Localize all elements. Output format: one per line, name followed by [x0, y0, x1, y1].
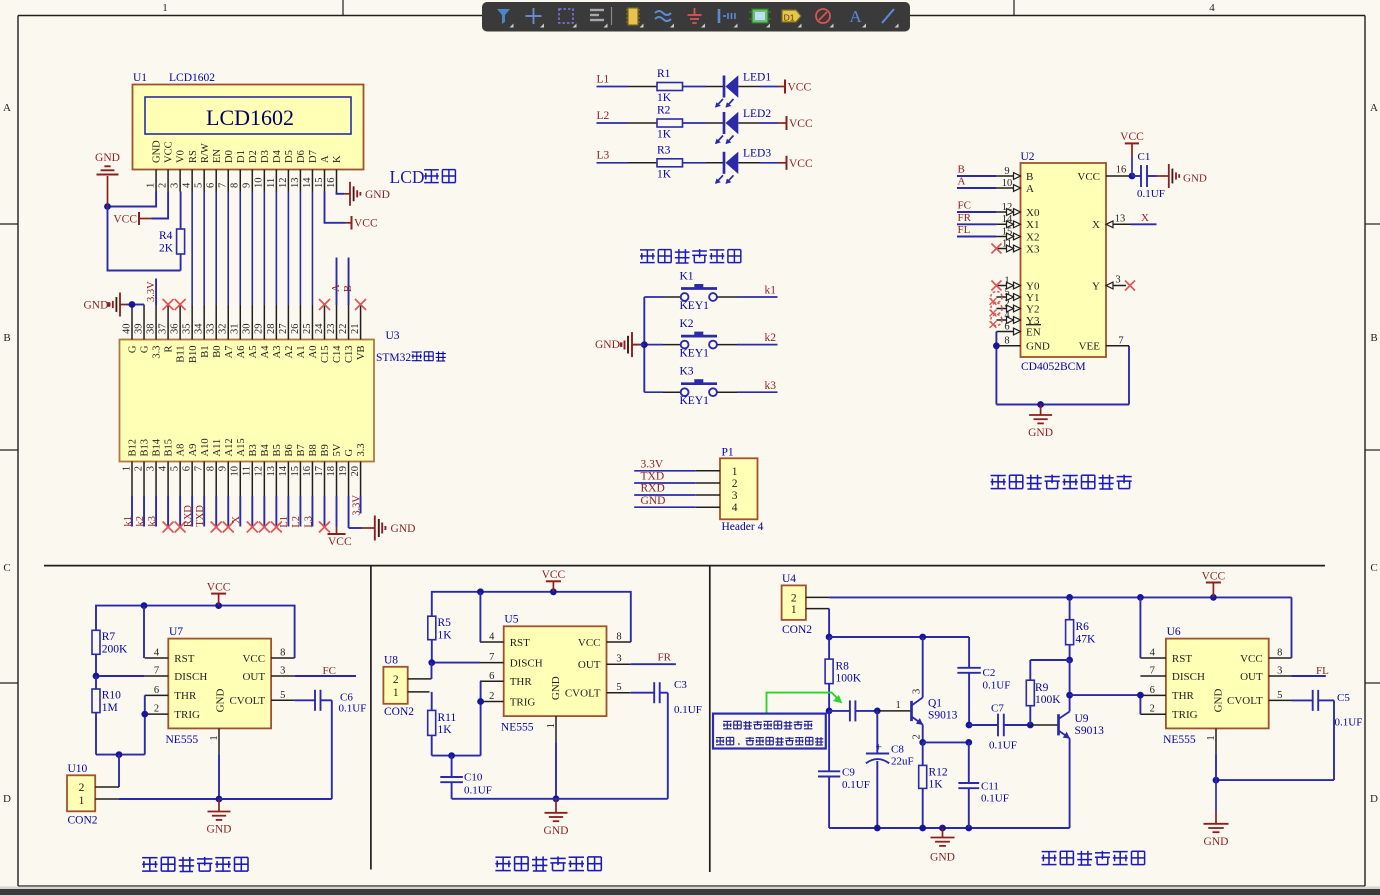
svg-text:TXD: TXD	[641, 471, 665, 483]
resistor R2 1K	[657, 105, 683, 141]
wire R7 top stub	[95, 676, 97, 689]
capacitor C8 22uF polarized	[866, 711, 914, 828]
U2 pin 1 Y0	[996, 275, 1040, 292]
svg-text:R4: R4	[159, 230, 173, 242]
svg-text:LCD1602: LCD1602	[206, 105, 294, 130]
wire RST riser U7	[143, 606, 145, 658]
component P1 Header4 body	[720, 458, 758, 519]
toolbar icon align	[590, 7, 612, 28]
junction	[919, 634, 926, 641]
component U2 CD4052BCM body	[1021, 163, 1107, 357]
svg-text:C: C	[3, 562, 10, 574]
label LCD module title	[390, 167, 456, 187]
svg-text:200K: 200K	[102, 643, 128, 655]
svg-text:STM32: STM32	[376, 352, 411, 364]
wire U3 pin23 net A	[336, 258, 338, 306]
toolbar icon wires	[655, 11, 674, 28]
label key circuit title	[640, 249, 655, 251]
svg-text:RS: RS	[188, 150, 199, 163]
svg-text:13: 13	[290, 178, 301, 189]
wire U7 GND pin riser	[218, 754, 220, 799]
U2 pin 5 Y1	[996, 287, 1039, 304]
svg-text:C: C	[1370, 562, 1377, 574]
svg-text:C13: C13	[344, 346, 355, 364]
svg-text:3: 3	[1115, 275, 1120, 286]
svg-text:Q1: Q1	[928, 698, 942, 710]
svg-text:1: 1	[162, 2, 168, 14]
power port VCC right of U1	[346, 216, 378, 230]
U6 pin 7 DISCH	[1140, 666, 1205, 683]
svg-text:11: 11	[266, 178, 277, 188]
U2 pin 3 Y	[1092, 275, 1126, 293]
transistor Q1 S9013	[896, 689, 958, 740]
capacitor C7 0.1UF	[969, 703, 1030, 752]
wire net FR to U2	[957, 223, 996, 225]
svg-text:2: 2	[393, 674, 399, 686]
svg-text:35: 35	[182, 324, 193, 335]
section divider horizontal	[44, 565, 1325, 567]
U6 pin 1 GND	[1206, 689, 1224, 755]
power port GND below U6	[1204, 780, 1229, 848]
junction	[216, 796, 223, 803]
svg-text:B9: B9	[320, 444, 331, 456]
wire U8 pin2 up to DISCH	[431, 663, 433, 679]
svg-text:VCC: VCC	[789, 118, 813, 130]
svg-text:0.1UF: 0.1UF	[983, 680, 1011, 692]
svg-text:5V: 5V	[332, 443, 343, 456]
bus wires U1 to U3 pins 35-25	[192, 192, 312, 306]
junction	[1066, 657, 1073, 664]
svg-text:U1: U1	[133, 72, 147, 84]
U7 pin 4 RST	[145, 648, 195, 665]
svg-text:C14: C14	[332, 345, 343, 363]
U2 pin 7 VEE	[1079, 335, 1129, 352]
svg-text:B7: B7	[296, 444, 307, 456]
resistor R3 1K	[657, 144, 683, 180]
wire U3 pin22 net B	[348, 258, 350, 306]
U6 pin 8 VCC	[1240, 648, 1291, 665]
wire emitter node row	[923, 741, 969, 743]
status strip bottom	[0, 887, 1380, 895]
svg-text:VCC: VCC	[542, 569, 566, 581]
power port GND below U5	[555, 799, 557, 813]
label resistance title	[495, 856, 510, 858]
wire GND trunk down to R4 bottom	[108, 207, 181, 271]
U8 pin 2	[393, 674, 432, 686]
svg-text:X0: X0	[1026, 207, 1040, 219]
svg-text:A4: A4	[260, 345, 271, 359]
svg-text:1: 1	[1004, 275, 1009, 286]
svg-text:3: 3	[145, 466, 156, 471]
svg-text:3: 3	[280, 666, 285, 677]
U2 pin 4 Y3	[996, 310, 1040, 327]
svg-text:R9: R9	[1035, 682, 1049, 694]
wire net 3.3V	[634, 470, 696, 472]
svg-text:4: 4	[157, 465, 168, 471]
wire THR TRIG riser U5	[479, 681, 482, 755]
junction	[1066, 594, 1073, 601]
svg-text:D7: D7	[308, 150, 319, 163]
wire OUT to FC	[295, 675, 356, 677]
junction	[966, 722, 973, 729]
svg-text:R3: R3	[657, 144, 671, 156]
svg-text:14: 14	[278, 465, 289, 476]
svg-text:A: A	[320, 155, 331, 163]
svg-text:1K: 1K	[657, 92, 672, 104]
wire U1 pin15 to VCC	[325, 192, 346, 223]
svg-text:38: 38	[145, 324, 156, 335]
U2 pin 6 EN	[996, 321, 1041, 338]
wire U3 pin12 stub	[263, 496, 265, 527]
svg-text:20: 20	[350, 466, 361, 477]
svg-text:15: 15	[314, 178, 325, 189]
toolbar icon text	[849, 7, 866, 28]
wire U3 pin13 stub	[275, 496, 277, 527]
svg-text:U9: U9	[1075, 713, 1089, 725]
svg-text:4: 4	[1209, 2, 1215, 14]
svg-text:U5: U5	[504, 614, 518, 626]
svg-text:G: G	[140, 345, 151, 353]
svg-text:CON2: CON2	[384, 706, 414, 718]
svg-text:3.3: 3.3	[152, 346, 163, 359]
U5 pin 8 VCC	[578, 632, 631, 649]
junction	[1210, 594, 1217, 601]
svg-text:D0: D0	[224, 150, 235, 163]
U6 pin 4 RST	[1140, 648, 1192, 665]
junction	[965, 825, 972, 832]
U3 comment STM32 core board	[376, 351, 446, 364]
capacitor C3 0.1UF	[654, 679, 702, 716]
U1 pins 1-16	[156, 170, 336, 192]
svg-text:D5: D5	[284, 150, 295, 163]
svg-text:VCC: VCC	[1120, 131, 1144, 143]
wire U5 GND pin riser	[555, 742, 557, 799]
svg-text:1: 1	[79, 795, 85, 807]
svg-text:2: 2	[79, 782, 85, 794]
svg-text:6: 6	[154, 685, 159, 696]
svg-text:k2: k2	[765, 332, 777, 344]
svg-text:B6: B6	[284, 444, 295, 456]
svg-text:FL: FL	[958, 224, 971, 236]
wire U3 pins 40,39 to GND	[127, 304, 145, 307]
svg-text:17: 17	[314, 466, 325, 477]
svg-text:L3: L3	[597, 150, 610, 162]
svg-text:6: 6	[489, 671, 494, 682]
svg-text:2: 2	[133, 466, 144, 471]
svg-text:A8: A8	[176, 444, 187, 457]
svg-text:2: 2	[1004, 298, 1009, 309]
junction	[477, 588, 484, 595]
svg-text:12: 12	[1002, 202, 1013, 213]
no-ERC marker U2 Y1	[990, 291, 1002, 305]
svg-text:K2: K2	[680, 318, 694, 330]
svg-text:3: 3	[732, 490, 738, 502]
svg-text:1: 1	[896, 700, 901, 711]
junction	[550, 588, 557, 595]
wire GND rail to C6 riser	[219, 700, 332, 799]
svg-text:100K: 100K	[1035, 694, 1061, 706]
svg-text:B: B	[343, 285, 354, 292]
U2 pin 15 X2	[996, 226, 1039, 243]
svg-text:8: 8	[206, 466, 217, 471]
svg-text:5: 5	[616, 682, 621, 693]
svg-text:GND: GND	[930, 852, 955, 864]
svg-text:KEY1: KEY1	[680, 347, 710, 359]
svg-text:Y: Y	[1092, 280, 1100, 292]
svg-text:VCC: VCC	[1077, 171, 1100, 183]
junction	[141, 711, 148, 718]
svg-text:U7: U7	[169, 626, 183, 638]
svg-text:OUT: OUT	[578, 659, 601, 671]
svg-text:5: 5	[170, 466, 181, 471]
svg-text:FC: FC	[323, 665, 336, 677]
svg-text:0.1UF: 0.1UF	[464, 785, 492, 797]
wire bottom rail block3	[829, 827, 1070, 829]
svg-text:GND: GND	[152, 140, 163, 163]
junction	[965, 739, 972, 746]
wire LED2 to VCC	[738, 122, 786, 124]
wire U8 pin1 to R11	[431, 692, 433, 711]
junction	[215, 602, 222, 609]
component U1 LCD1602 body	[133, 85, 364, 170]
U7 pin 5 CVOLT	[229, 690, 294, 707]
svg-text:X: X	[231, 516, 242, 524]
svg-text:LCD: LCD	[390, 167, 425, 187]
svg-text:k3: k3	[147, 516, 158, 527]
capacitor C1	[1132, 151, 1165, 200]
U2 pin 2 Y2	[996, 298, 1039, 315]
svg-text:B5: B5	[272, 444, 283, 456]
U2 pin 16 VCC	[1077, 164, 1132, 182]
svg-text:8: 8	[1004, 336, 1009, 347]
svg-text:7: 7	[1118, 335, 1123, 346]
wire THR TRIG riser U6	[1139, 695, 1141, 714]
svg-text:0.1UF: 0.1UF	[981, 793, 1009, 805]
wire U1 pin2 to VCC	[152, 192, 169, 219]
power port GND right of U1	[344, 182, 390, 206]
svg-text:6: 6	[182, 466, 193, 471]
svg-text:NE555: NE555	[501, 722, 534, 734]
svg-text:7: 7	[218, 183, 229, 188]
wire trunk to K1	[644, 296, 680, 298]
svg-text:G: G	[128, 345, 139, 353]
wires U3 pins 1-3 nets k1 k2 k3	[132, 496, 156, 527]
wire CVOLT to C5	[1292, 699, 1313, 701]
no-ERC marker pin36	[175, 299, 186, 310]
svg-text:2: 2	[154, 704, 159, 715]
capacitor C5 0.1UF	[1313, 690, 1363, 729]
wire U9 emitter riser to bottom rail	[1069, 738, 1071, 828]
svg-text:1: 1	[209, 735, 220, 740]
svg-text:FL: FL	[1316, 665, 1329, 677]
svg-text:22: 22	[338, 324, 349, 335]
wire net FL to U2	[957, 236, 996, 238]
svg-text:GND: GND	[207, 824, 232, 836]
junction	[874, 825, 881, 832]
U7 pin 8 VCC	[242, 648, 294, 665]
junction	[141, 602, 148, 609]
U1 pin names	[152, 140, 343, 163]
svg-text:A3: A3	[272, 346, 283, 359]
toolbar icon filter	[497, 9, 514, 28]
annotation text frame	[713, 714, 826, 749]
svg-text:GND: GND	[84, 300, 109, 312]
P1 pin 1	[696, 466, 738, 478]
svg-text:1K: 1K	[438, 629, 453, 641]
svg-text:VCC: VCC	[113, 214, 137, 226]
toolbar icon power port	[688, 8, 706, 28]
wire L3 to R3	[597, 162, 658, 164]
svg-text:OUT: OUT	[1240, 671, 1263, 683]
power port VCC LED1	[785, 80, 811, 94]
svg-text:k3: k3	[765, 380, 777, 392]
junction	[1066, 692, 1073, 699]
svg-text:7: 7	[154, 666, 159, 677]
toolbar icon probe	[719, 9, 738, 28]
svg-text:TXD: TXD	[195, 505, 206, 527]
svg-text:11: 11	[242, 466, 253, 476]
svg-text:A10: A10	[200, 438, 211, 456]
svg-text:RST: RST	[1172, 653, 1192, 665]
wire RST riser U6	[1139, 597, 1141, 658]
svg-text:THR: THR	[510, 676, 533, 688]
power port GND right of U3 pin19	[362, 516, 415, 541]
svg-text:GND: GND	[1028, 427, 1053, 439]
svg-text:GND: GND	[391, 523, 416, 535]
svg-text:U10: U10	[68, 763, 88, 775]
svg-text:CVOLT: CVOLT	[229, 695, 265, 707]
U7 pin 3 OUT	[242, 666, 294, 683]
svg-text:RXD: RXD	[641, 483, 665, 495]
power port GND below U2	[1040, 405, 1042, 416]
wire node to U6 THR	[1070, 694, 1141, 696]
wire U3 pin4 stub	[167, 496, 169, 527]
svg-text:39: 39	[133, 324, 144, 335]
no-ERC marker pin17	[319, 522, 330, 533]
wire OUT to FR	[631, 663, 676, 665]
svg-text:THR: THR	[174, 690, 197, 702]
wire U1 pin3 to R4	[180, 192, 182, 230]
svg-text:B: B	[1026, 171, 1033, 183]
svg-text:K: K	[332, 155, 343, 163]
svg-text:1: 1	[732, 466, 738, 478]
P1 pin 4	[696, 502, 738, 514]
svg-text:X3: X3	[1026, 243, 1040, 255]
junction	[477, 698, 484, 705]
capacitor C6 0.1UF	[315, 690, 366, 715]
junction	[939, 825, 946, 832]
resistor R1 1K	[657, 68, 683, 104]
resistor R9 100K	[1026, 660, 1061, 725]
svg-text:2: 2	[157, 183, 168, 188]
svg-text:GND: GND	[95, 152, 120, 164]
svg-text:34: 34	[194, 323, 205, 334]
svg-text:0.1UF: 0.1UF	[989, 740, 1017, 752]
svg-text:X: X	[1141, 212, 1149, 224]
svg-text:A7: A7	[224, 346, 235, 359]
no-ERC marker pin5	[175, 522, 186, 533]
wire net GND	[634, 506, 696, 508]
svg-text:2: 2	[1150, 704, 1155, 715]
resistor R11 1K	[428, 710, 457, 736]
svg-text:7: 7	[1150, 666, 1155, 677]
U5 pin 7 DISCH	[480, 652, 543, 669]
svg-text:D: D	[1370, 793, 1378, 805]
svg-text:R: R	[164, 346, 175, 353]
svg-text:3.3V: 3.3V	[146, 281, 157, 302]
wire U3 pin9 stub	[227, 496, 229, 527]
component U4 CON2 body	[782, 585, 806, 620]
svg-text:k2: k2	[135, 516, 146, 527]
wire U4 pin1 down	[828, 609, 830, 637]
svg-text:A: A	[3, 102, 11, 114]
svg-text:GND: GND	[365, 189, 390, 201]
power port VCC LED2	[787, 116, 813, 130]
component U6 NE555 body	[1166, 639, 1269, 729]
wire K1 to net k1	[717, 296, 777, 298]
svg-text:32: 32	[218, 324, 229, 335]
toolbar icon line	[882, 9, 899, 28]
wire VCC rail block3	[829, 596, 1291, 598]
svg-text:33: 33	[206, 324, 217, 335]
svg-text:2: 2	[791, 593, 797, 605]
label multiplexer title	[991, 475, 1006, 477]
junction	[553, 795, 560, 802]
svg-text:A5: A5	[248, 346, 259, 359]
svg-text:5: 5	[194, 183, 205, 188]
svg-text:DISCH: DISCH	[174, 671, 207, 683]
wire R5 to DISCH	[432, 640, 480, 663]
svg-text:6: 6	[1150, 685, 1155, 696]
wire U3 pin8 stub	[215, 496, 217, 527]
svg-text:100K: 100K	[836, 673, 862, 685]
svg-text:VCC: VCC	[207, 581, 231, 593]
component U10 CON2 body	[67, 775, 95, 811]
svg-text:37: 37	[157, 324, 168, 335]
svg-text:K1: K1	[680, 270, 694, 282]
U5 pin 5 CVOLT	[565, 682, 631, 699]
no-ERC marker pin4	[163, 522, 174, 533]
wire U2 X net	[1131, 223, 1157, 225]
svg-text:7: 7	[489, 652, 494, 663]
wire U3 pin19 to GND	[349, 496, 362, 528]
svg-text:VCC: VCC	[242, 653, 265, 665]
svg-text:k1: k1	[765, 285, 777, 297]
wire base U9	[1030, 724, 1058, 726]
svg-text:16: 16	[326, 178, 337, 189]
svg-text:29: 29	[254, 324, 265, 335]
svg-text:D: D	[3, 793, 11, 805]
U5 pin 3 OUT	[578, 654, 631, 671]
svg-text:+: +	[876, 742, 883, 754]
wire R8 to base node	[828, 684, 830, 711]
wire Q1 emitter riser	[922, 725, 924, 743]
svg-text:B4: B4	[260, 443, 271, 456]
power port GND key module	[595, 332, 644, 357]
svg-text:1: 1	[546, 723, 557, 728]
wire bottom rail U5	[452, 798, 668, 800]
svg-text:25: 25	[302, 324, 313, 335]
svg-text:C3: C3	[674, 679, 687, 691]
wire C5 riser to GND row	[1216, 700, 1334, 780]
svg-text:B: B	[3, 332, 10, 344]
svg-text:L1: L1	[279, 516, 290, 528]
svg-text:FR: FR	[658, 652, 672, 664]
annotation arrow green	[767, 693, 843, 714]
svg-text:GND: GND	[641, 495, 666, 507]
label capacitance title	[142, 857, 157, 859]
no-ERC marker U2 Y	[1125, 281, 1135, 291]
